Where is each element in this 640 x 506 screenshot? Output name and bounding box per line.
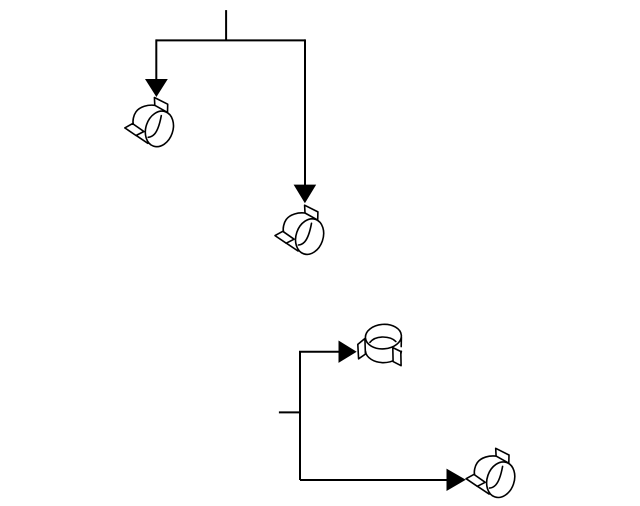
arrowhead A1 down [145,79,168,97]
wire lower branch horizontal [300,479,448,481]
cup right tab [393,348,401,366]
reel icon S4 [466,448,519,501]
reel icon S1 [125,98,178,151]
arrowhead A4 right [447,469,466,491]
cup left tab [358,339,366,359]
wire upper branch horizontal [299,351,340,353]
reel icon S2 [275,205,328,258]
cup top rim ellipse [365,323,403,350]
cup body right side [400,337,402,346]
wire right branch vertical [304,39,306,190]
wire top horizontal bar [156,39,305,41]
cup body bottom arc [366,351,402,362]
wire stub tick [279,411,300,413]
arrowhead A2 down [294,185,317,204]
wire top stub [225,10,227,40]
wire lower vertical trunk [299,352,301,480]
wire left branch vertical [155,39,157,85]
cup inner wall arc [370,337,396,342]
arrowhead A3 right [339,341,357,363]
cup icon S3 [358,323,402,366]
